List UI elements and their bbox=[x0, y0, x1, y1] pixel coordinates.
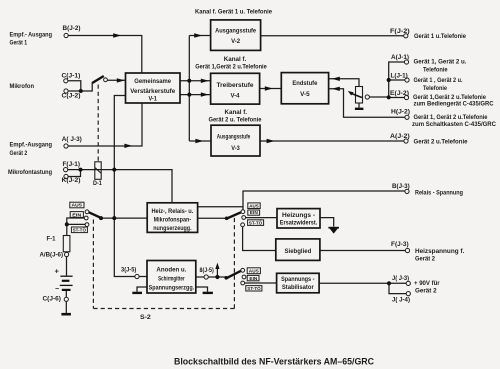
svg-text:Mikrofon: Mikrofon bbox=[10, 83, 35, 90]
svg-text:EIN: EIN bbox=[250, 210, 259, 216]
wire ST-TOE contact to Spannungs-Stabilisator bbox=[245, 282, 277, 284]
svg-text:K(J-2): K(J-2) bbox=[62, 177, 81, 184]
terminal circles right side bbox=[404, 34, 411, 296]
stage V-3 Ausgangsstufe box bbox=[211, 125, 260, 156]
svg-text:Heizungs -: Heizungs - bbox=[282, 212, 315, 219]
junction dot pivot S-2c bbox=[224, 276, 228, 280]
wire Heiz lower output to switch pivot bbox=[198, 217, 227, 219]
svg-text:E(J-2): E(J-2) bbox=[390, 90, 409, 97]
svg-text:+: + bbox=[55, 267, 60, 276]
arrow into V-5 bbox=[265, 86, 273, 90]
svg-text:EIN: EIN bbox=[72, 212, 82, 218]
op-amp stage V-1 Gemeinsame Verstaerkerstufe box bbox=[126, 73, 181, 103]
wire fuse to A/B(J-6) bbox=[66, 251, 68, 254]
svg-text:S-2: S-2 bbox=[140, 314, 151, 321]
svg-text:8(J-5): 8(J-5) bbox=[200, 267, 214, 274]
transformer wiper arrow bbox=[348, 91, 354, 96]
svg-text:AUS: AUS bbox=[249, 269, 260, 275]
svg-text:C(J-1): C(J-1) bbox=[62, 73, 81, 80]
wire B(J-2) input to V-1 top bbox=[68, 36, 142, 74]
svg-text:Kanal f.: Kanal f. bbox=[225, 109, 248, 116]
switch S-2b contacts bbox=[241, 210, 246, 227]
svg-text:Verstärkerstufe: Verstärkerstufe bbox=[130, 88, 175, 95]
svg-text:Heizspannung f.: Heizspannung f. bbox=[415, 248, 465, 255]
svg-text:Kanal f. Gerät 1 u. Telefonie: Kanal f. Gerät 1 u. Telefonie bbox=[195, 9, 273, 16]
arrow into V-3 bbox=[195, 139, 203, 143]
arrow into V-4 lower bbox=[201, 92, 209, 96]
svg-text:Telefonie: Telefonie bbox=[423, 66, 448, 73]
svg-text:Kanal f.: Kanal f. bbox=[224, 56, 247, 63]
svg-text:F(J-1): F(J-1) bbox=[63, 161, 81, 168]
dashed gang link S-2 left bbox=[92, 220, 94, 309]
wire transformer bottom to ground bbox=[358, 103, 360, 108]
svg-text:Gerät 1, Gerät 2 u.: Gerät 1, Gerät 2 u. bbox=[414, 59, 467, 66]
svg-text:Gerät 1 u.Telefonie: Gerät 1 u.Telefonie bbox=[414, 33, 467, 40]
wire mic switch contact to V-1 left bbox=[108, 79, 126, 81]
mic input switch contact bbox=[104, 78, 108, 82]
svg-text:C(J-2): C(J-2) bbox=[62, 93, 81, 100]
svg-text:Gerät 2: Gerät 2 bbox=[10, 150, 28, 157]
svg-text:B(J-3): B(J-3) bbox=[392, 183, 410, 190]
terminal A/B(J-6) bbox=[65, 252, 69, 256]
wire Heiz top output to Relais node bbox=[198, 191, 405, 207]
wire to Ausgangsstufe V-2 bbox=[189, 35, 210, 37]
svg-text:A/B(J-6): A/B(J-6) bbox=[40, 252, 64, 259]
terminal J(J-4) bbox=[406, 292, 410, 296]
svg-text:A( J-3): A( J-3) bbox=[62, 136, 82, 143]
wire ST-TOE contact down to Siebglied bbox=[243, 227, 276, 251]
wire C(J-6) to ground bbox=[65, 302, 67, 314]
terminal E(J-2) bbox=[404, 95, 408, 99]
wire supply bus V-1 lower-left down to 3(J-5) bbox=[114, 96, 135, 277]
svg-text:Gerät 1: Gerät 1 bbox=[10, 40, 28, 47]
svg-text:Stabilisator: Stabilisator bbox=[282, 284, 314, 291]
wire 8(J-5) pin to switch pivot bbox=[208, 276, 227, 279]
junction dot F/K keying node bbox=[79, 168, 83, 172]
svg-text:B(J-2): B(J-2) bbox=[63, 25, 81, 32]
dashed gang link S-2 bottom bbox=[93, 308, 234, 310]
wire J node down to J(J-4) bbox=[389, 283, 406, 293]
dashed link mic switch to relay D-1 bbox=[97, 85, 99, 162]
block Heizungs-Ersatzwiderstand bbox=[277, 209, 320, 228]
junction dot V-1 out lower bbox=[187, 93, 191, 97]
svg-text:Ersatzwiderst.: Ersatzwiderst. bbox=[280, 220, 318, 227]
svg-text:ST-TÖ: ST-TÖ bbox=[73, 227, 87, 234]
wire V-4 to Endstufe V-5 bbox=[260, 88, 282, 90]
switch S-2b lever (Heizung) bbox=[227, 212, 242, 218]
dashed gang link S-2 right bbox=[233, 215, 235, 309]
wire battery node to ST-TOE contact bbox=[67, 223, 85, 225]
wire battery minus to C(J-6) bbox=[65, 290, 67, 297]
svg-text:Spannungserzgg.: Spannungserzgg. bbox=[149, 285, 195, 292]
wire V-2 output to F(J-2) bbox=[261, 35, 404, 37]
svg-text:Gerät 2 u. Telefonie: Gerät 2 u. Telefonie bbox=[209, 117, 263, 124]
wire EIN contact to battery node bbox=[67, 218, 84, 224]
switch position labels S-2c bbox=[246, 268, 262, 291]
arrow mic line into V-1 bbox=[117, 78, 125, 82]
wire Relais node down to AUS contact bbox=[242, 207, 244, 210]
stage V-5 Endstufe box bbox=[281, 73, 328, 104]
svg-text:Treiberstufe: Treiberstufe bbox=[217, 82, 254, 89]
wire A/B(J-6) to battery plus bbox=[66, 257, 68, 276]
junction dot switch pivot S-2a bbox=[99, 216, 103, 220]
svg-text:ST-TÖ: ST-TÖ bbox=[247, 285, 261, 292]
wire V-1 out to junction column bbox=[180, 81, 189, 95]
junction dot pivot S-2b bbox=[225, 217, 229, 221]
wire Heizungs-Ersatzwiderstand to ground bbox=[320, 218, 334, 227]
wire 3(J-5) pin to Anoden box bbox=[139, 276, 147, 278]
svg-text:Anoden u.: Anoden u. bbox=[156, 266, 186, 273]
terminal F(J-1) bbox=[64, 168, 68, 172]
terminal C(J-6) bbox=[64, 297, 68, 301]
svg-text:F(J-2): F(J-2) bbox=[390, 28, 410, 35]
svg-text:Empf.- Ausgang: Empf.- Ausgang bbox=[10, 32, 53, 39]
pin 3(J-5) bbox=[135, 274, 139, 278]
block Siebglied bbox=[276, 239, 320, 261]
terminal H(J-2) bbox=[405, 115, 409, 119]
arrow into V-2 bbox=[194, 33, 202, 37]
svg-text:Ausgangsstufe: Ausgangsstufe bbox=[215, 28, 256, 35]
transformer tap contact bbox=[365, 95, 369, 99]
terminal C(J-1) bbox=[64, 79, 68, 83]
junction dot 8(J-5) node bbox=[215, 275, 219, 279]
wire Spannungs-Stabilisator to J(J-3) bbox=[319, 282, 406, 284]
svg-text:Telefonie: Telefonie bbox=[423, 85, 448, 92]
wire E(J-2) stub bbox=[389, 97, 405, 99]
terminal B(J-2) bbox=[64, 33, 68, 37]
svg-text:Mikrofontastung: Mikrofontastung bbox=[8, 169, 52, 176]
relay D-1 bbox=[95, 162, 101, 180]
svg-text:Ausgangsstufe: Ausgangsstufe bbox=[217, 133, 251, 140]
wire battery node to fuse F-1 bbox=[66, 224, 68, 235]
svg-text:+ 90V für: + 90V für bbox=[414, 280, 440, 287]
ground at Heizungs-Ersatzwiderstand bbox=[328, 227, 339, 234]
wire to Ausgangsstufe V-3 bbox=[189, 140, 211, 142]
junction dot V-1 out upper bbox=[187, 79, 191, 83]
svg-text:Gerät 1 , Gerät 2 u.: Gerät 1 , Gerät 2 u. bbox=[414, 77, 463, 84]
wire Endstufe lower to H(J-2) line bbox=[329, 89, 405, 118]
wire 8(J-5) arrow stem up bbox=[216, 266, 218, 277]
svg-text:L(J-1): L(J-1) bbox=[391, 72, 408, 79]
svg-text:Gerät 2: Gerät 2 bbox=[415, 256, 436, 263]
svg-text:Gemeinsame: Gemeinsame bbox=[134, 78, 171, 85]
transformer T-1 (output, variable tap) bbox=[356, 87, 363, 104]
arrow into V-4 upper bbox=[201, 79, 209, 83]
arrow into V-5 from H line bbox=[332, 87, 340, 91]
terminal circles left side bbox=[64, 33, 209, 301]
svg-text:Gerät 1,Gerät 2 u.Telefonie: Gerät 1,Gerät 2 u.Telefonie bbox=[195, 64, 267, 71]
arrow A(J-3) line bbox=[124, 144, 132, 148]
terminal F(J-3) bbox=[405, 248, 409, 252]
svg-text:V-5: V-5 bbox=[300, 91, 310, 98]
junction dot L node bbox=[387, 78, 391, 82]
terminal B(J-3) bbox=[405, 189, 409, 193]
wire Siebglied output to F(J-3) bbox=[320, 250, 405, 252]
svg-text:C(J-6): C(J-6) bbox=[43, 296, 61, 303]
svg-text:J( J-3): J( J-3) bbox=[392, 275, 409, 282]
svg-text:Endstufe: Endstufe bbox=[292, 80, 317, 87]
wire F(J-1) to node bbox=[68, 169, 81, 171]
switch S-2c contacts bbox=[241, 268, 246, 285]
arrow into V-5 from transformer top line bbox=[332, 77, 340, 81]
stage V-4 Treiberstufe box bbox=[211, 73, 260, 104]
svg-text:Blockschaltbild des NF-Verstär: Blockschaltbild des NF-Verstärkers AM–65… bbox=[174, 357, 374, 367]
svg-text:ST-TÖ: ST-TÖ bbox=[249, 219, 263, 226]
wire Anoden box to 8(J-5) pin bbox=[196, 276, 204, 278]
wire output bus A/L/E bbox=[389, 62, 405, 97]
stage V-2 Ausgangsstufe box bbox=[211, 20, 261, 51]
svg-text:Gerät 2 u.Telefonie: Gerät 2 u.Telefonie bbox=[414, 139, 469, 146]
svg-text:D-1: D-1 bbox=[93, 180, 102, 187]
wire switch pivot to bus and Heiz box bbox=[101, 217, 147, 219]
junction dot keying/bus node bbox=[112, 168, 116, 172]
junction dot battery node bbox=[65, 222, 69, 226]
junction dot J(J-3) node bbox=[387, 281, 391, 285]
block Spannungs-Stabilisator bbox=[277, 273, 320, 293]
switch S-2c lever (Anodenspannung) bbox=[226, 271, 241, 278]
block Heiz- Relais- u. Mikrofonspannungserzeugung bbox=[147, 203, 197, 233]
wire to Treiberstufe V-4 bbox=[189, 81, 210, 95]
svg-text:V-3: V-3 bbox=[231, 145, 240, 152]
wire C(J-1) to switch node bbox=[68, 81, 81, 91]
block Anoden u. Schirmgitter Spannungserzeugung bbox=[147, 261, 196, 294]
terminal K(J-2) bbox=[64, 174, 68, 178]
junction dot C(J-2) node bbox=[79, 89, 83, 93]
wire V-3 output to A(J-2) bbox=[260, 140, 404, 142]
pin 8(J-5) bbox=[204, 275, 208, 279]
svg-text:V-2: V-2 bbox=[231, 38, 240, 45]
terminal A(J-3) bbox=[64, 144, 68, 148]
arrow up from 8(J-5) node bbox=[215, 263, 219, 269]
svg-text:AUS: AUS bbox=[249, 203, 259, 209]
arrow B(J-2) line bbox=[113, 33, 121, 37]
battery B-1 plates bbox=[60, 276, 73, 290]
ground below C(J-6) bbox=[61, 313, 71, 316]
ground below Anoden box left bbox=[132, 292, 142, 294]
wire A(J-3) input to V-1 bottom bbox=[68, 103, 142, 146]
svg-text:zum Bediengerät C-435/GRC: zum Bediengerät C-435/GRC bbox=[414, 101, 494, 108]
svg-text:−: − bbox=[55, 286, 59, 293]
svg-text:H(J-2): H(J-2) bbox=[391, 108, 410, 115]
svg-text:Siebglied: Siebglied bbox=[285, 248, 312, 255]
svg-text:Schirmgitter: Schirmgitter bbox=[158, 276, 185, 283]
switch S-2a lever (main AUS/EIN) bbox=[89, 212, 101, 218]
switch position labels S-2a bbox=[70, 202, 88, 232]
wire Endstufe to transformer top bbox=[329, 79, 359, 87]
junction dot bus/switch node bbox=[112, 216, 116, 220]
svg-text:Spannungs -: Spannungs - bbox=[281, 276, 314, 283]
terminal J(J-3) bbox=[406, 281, 410, 285]
wire Anoden left ground lead bbox=[137, 287, 147, 292]
svg-text:F-1: F-1 bbox=[47, 236, 57, 243]
svg-text:F(J-3): F(J-3) bbox=[391, 241, 409, 248]
terminal C(J-2) bbox=[64, 89, 68, 93]
svg-text:nungserzeugg.: nungserzeugg. bbox=[153, 225, 192, 232]
ground below Anoden box right bbox=[203, 292, 213, 294]
ground at transformer bbox=[355, 108, 364, 110]
svg-text:Gerät 2: Gerät 2 bbox=[415, 287, 437, 294]
wire junction column x189 bbox=[188, 36, 190, 142]
svg-text:Empf.-Ausgang: Empf.-Ausgang bbox=[10, 142, 53, 149]
wire EIN contact to Heizungs-Ersatzwiderstand bbox=[246, 217, 277, 219]
svg-text:EIN: EIN bbox=[249, 276, 258, 282]
switch S-2a contacts bbox=[84, 210, 89, 227]
svg-text:J( J-4): J( J-4) bbox=[392, 297, 410, 304]
switch position labels S-2b bbox=[248, 203, 264, 226]
svg-text:zum Schaltkasten C-435/GRC: zum Schaltkasten C-435/GRC bbox=[412, 121, 497, 128]
wire K(J-2) to node bbox=[68, 170, 81, 177]
arrow V-3 output bbox=[267, 139, 275, 143]
wire Anoden right ground lead bbox=[196, 287, 208, 292]
terminal F(J-2) bbox=[404, 34, 408, 38]
svg-text:Heiz-, Relais- u.: Heiz-, Relais- u. bbox=[151, 208, 193, 215]
mic input switch lever bbox=[92, 76, 104, 83]
svg-text:AUS: AUS bbox=[72, 203, 83, 209]
terminal L(J-1) bbox=[405, 78, 409, 82]
svg-text:V-1: V-1 bbox=[148, 95, 157, 102]
wire transformer tap to E node bbox=[369, 96, 388, 98]
svg-text:Relais - Spannung: Relais - Spannung bbox=[415, 189, 463, 196]
fuse F-1 bbox=[63, 236, 70, 252]
terminal A(J-2) bbox=[404, 139, 408, 143]
wire keying line through relay D-1 to Heiz box bbox=[81, 170, 173, 203]
svg-text:Mikrofonspan-: Mikrofonspan- bbox=[154, 216, 192, 223]
wire L(J-1) stub bbox=[389, 79, 405, 81]
junction dot E node bbox=[387, 95, 391, 99]
svg-text:A(J-2): A(J-2) bbox=[390, 133, 410, 140]
svg-text:V-4: V-4 bbox=[231, 93, 240, 100]
wire C(J-2) to switch node bbox=[68, 83, 92, 92]
terminal A(J-1) bbox=[404, 60, 408, 64]
svg-text:A(J-1): A(J-1) bbox=[391, 54, 409, 61]
svg-text:3(J-5): 3(J-5) bbox=[121, 266, 136, 273]
